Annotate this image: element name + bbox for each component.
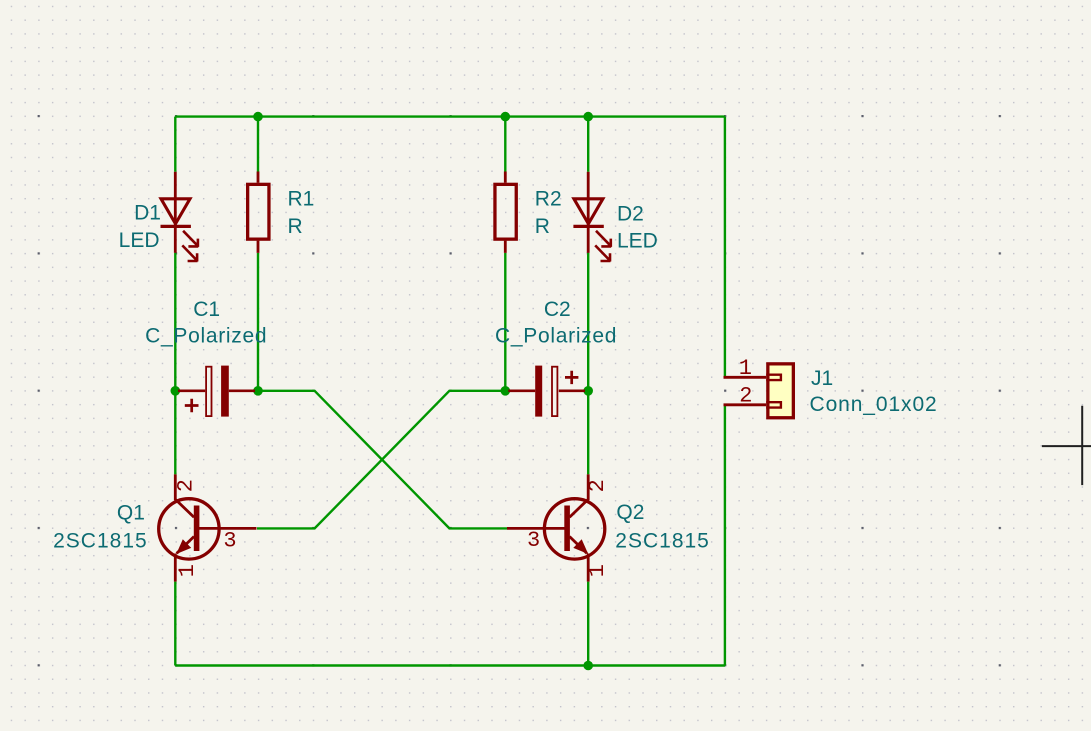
- svg-text:2: 2: [585, 479, 610, 492]
- transistor Q2 (2SC1815): [507, 474, 605, 581]
- wire left rail mid (D1 cathode to Q1 collector): [174, 253, 176, 475]
- svg-text:1: 1: [739, 356, 752, 381]
- wire left rail upper (to D1 anode): [174, 117, 176, 172]
- svg-text:R2: R2: [535, 188, 562, 211]
- svg-text:R1: R1: [288, 188, 315, 211]
- wire Q2 emitter to bottom rail: [587, 582, 589, 666]
- svg-text:R: R: [535, 215, 550, 238]
- svg-text:LED: LED: [617, 230, 658, 253]
- svg-text:D1: D1: [134, 202, 161, 225]
- junction node top-D2: [583, 112, 593, 122]
- junction node bottom Q2 emitter: [583, 661, 593, 671]
- svg-text:C2: C2: [544, 298, 571, 321]
- junction node top-R2: [501, 112, 511, 122]
- svg-text:Q2: Q2: [616, 501, 644, 524]
- wire D2 cathode to Q2 collector: [587, 253, 589, 475]
- svg-text:2SC1815: 2SC1815: [53, 530, 148, 553]
- wire R1 bottom to C1 right node: [257, 253, 259, 391]
- svg-text:2SC1815: 2SC1815: [615, 530, 710, 553]
- junction node top-R1: [253, 112, 263, 122]
- svg-text:1: 1: [175, 564, 200, 577]
- resistor R1: [248, 172, 269, 253]
- svg-text:C1: C1: [193, 298, 220, 321]
- svg-text:Q1: Q1: [117, 502, 145, 525]
- wire R2 top lead: [504, 117, 506, 172]
- svg-text:3: 3: [527, 528, 540, 553]
- svg-text:D2: D2: [617, 203, 644, 226]
- svg-text:C_Polarized: C_Polarized: [145, 324, 267, 347]
- svg-text:3: 3: [223, 529, 236, 554]
- connector J1 Conn_01x02: [724, 364, 794, 418]
- wire top rail: [175, 115, 725, 117]
- wire C1 right node to Q2 base (diagonal): [258, 391, 507, 529]
- wire D2 top lead: [587, 117, 589, 172]
- svg-text:Conn_01x02: Conn_01x02: [810, 393, 938, 416]
- LED D2: [573, 172, 611, 262]
- wire bottom rail: [175, 664, 725, 666]
- junction node C1 right: [253, 386, 263, 396]
- cursor crosshair: [1042, 406, 1091, 485]
- junction node C2 left: [501, 386, 511, 396]
- wire right rail upper (to J1 pin 1): [724, 117, 726, 378]
- junction node C1 left: [171, 386, 181, 396]
- capacitor C2 (polarized): [508, 366, 585, 417]
- svg-text:R: R: [288, 215, 303, 238]
- wire R1 top lead: [257, 117, 259, 172]
- svg-text:J1: J1: [811, 367, 833, 390]
- wire Q1 base to C2 left node (diagonal): [257, 391, 505, 529]
- svg-text:2: 2: [739, 384, 752, 409]
- transistor Q1 (2SC1815, mirrored): [159, 474, 257, 581]
- wire right rail lower (J1 pin 2 to bottom rail): [724, 405, 726, 666]
- junction node C2 right: [583, 386, 593, 396]
- wire left rail lower (Q1 emitter to bottom rail): [174, 582, 176, 666]
- svg-text:LED: LED: [119, 229, 160, 252]
- wire R2 bottom to C2 left node: [504, 253, 506, 391]
- LED D1: [161, 172, 199, 262]
- svg-text:C_Polarized: C_Polarized: [495, 324, 617, 347]
- resistor R2: [495, 172, 516, 253]
- svg-text:1: 1: [585, 564, 610, 577]
- svg-text:2: 2: [174, 479, 199, 492]
- capacitor C1 (polarized): [178, 366, 255, 417]
